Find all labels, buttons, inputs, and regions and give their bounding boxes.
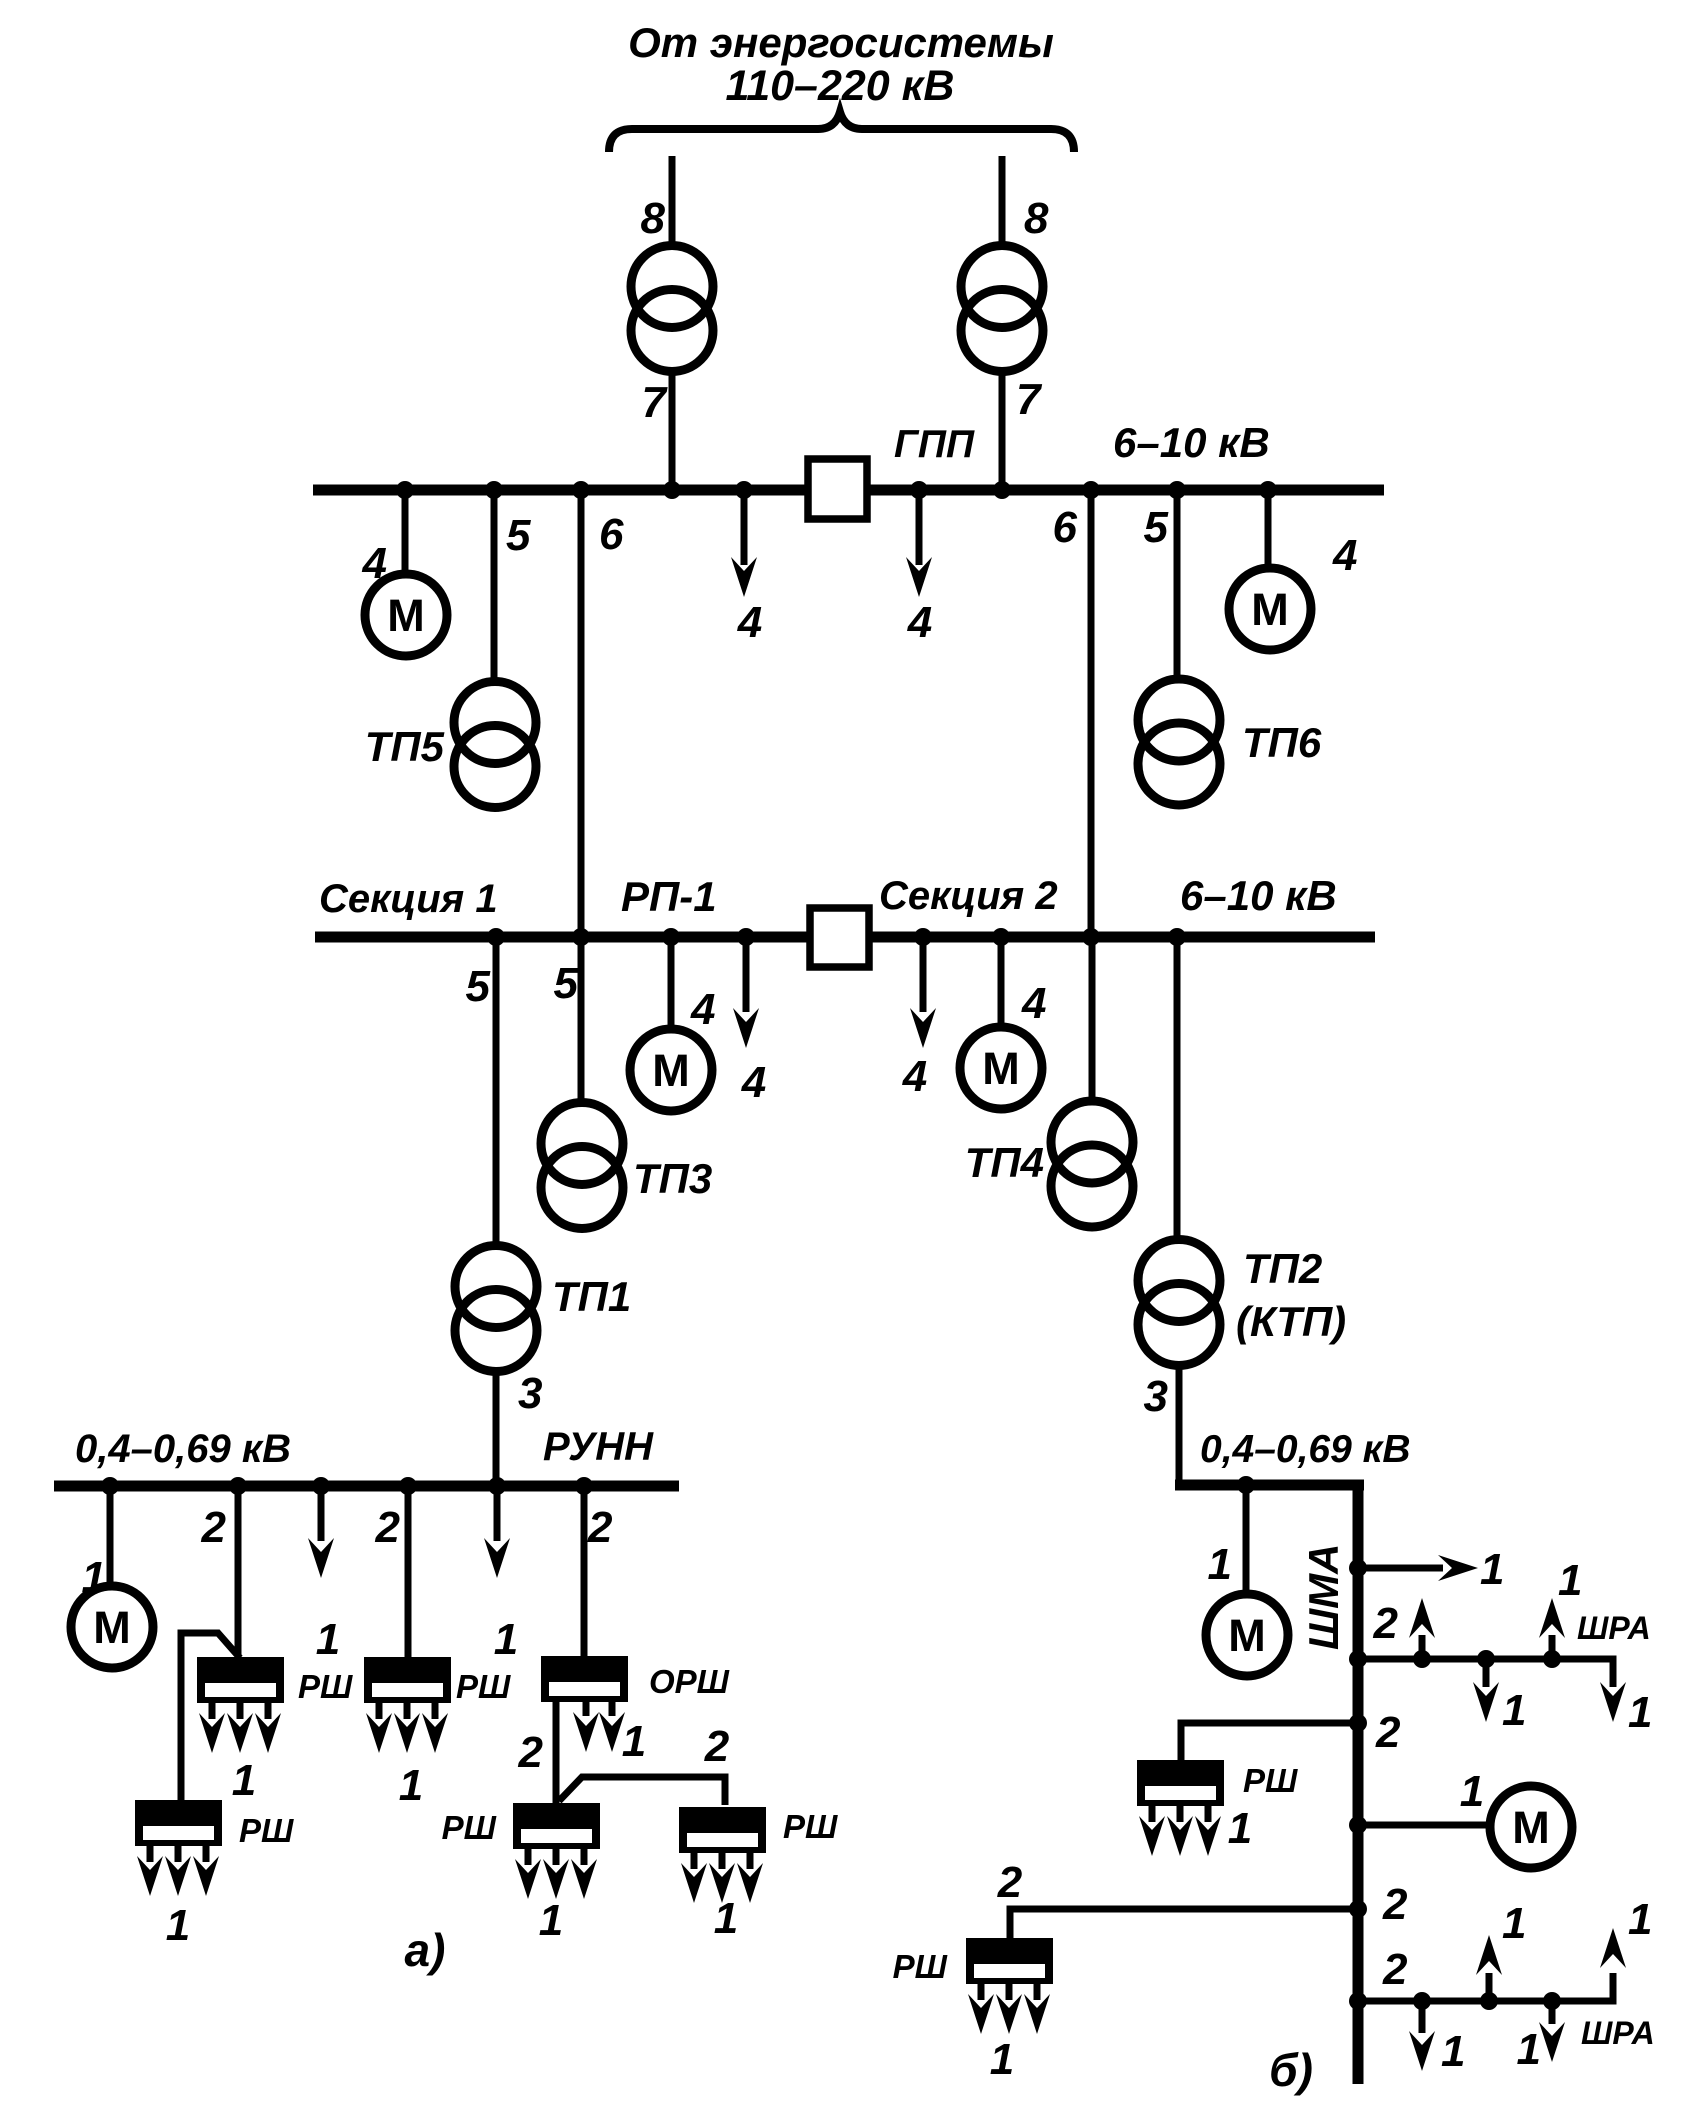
svg-text:РШ: РШ — [442, 1809, 497, 1846]
svg-text:1: 1 — [1628, 1688, 1652, 1737]
wire: down spur — [1483, 1663, 1490, 1687]
wire: reserve feeder arrow (right of tie) — [916, 494, 923, 565]
wire: bus1 to ТП5 — [491, 494, 498, 683]
junction: ШРА-1 drop 1 — [1413, 1650, 1431, 1668]
arrowhead down — [1539, 2022, 1565, 2062]
wire: bent link РШ A1 to РШ A2 — [181, 1633, 240, 1803]
wire: up spur — [1486, 1973, 1493, 1997]
junction: РШ tap — [399, 1477, 417, 1495]
junction: trunk/ТП4 — [1082, 928, 1100, 946]
svg-text:Секция 2: Секция 2 — [879, 874, 1058, 918]
junction: arrow tap — [312, 1477, 330, 1495]
svg-text:ТП5: ТП5 — [365, 723, 445, 770]
svg-text:ШРА: ШРА — [1577, 1610, 1651, 1646]
svg-text:ШРА: ШРА — [1581, 2015, 1655, 2051]
svg-text:1: 1 — [622, 1717, 646, 1766]
svg-text:4: 4 — [1021, 979, 1046, 1028]
svg-text:0,4–0,69 кВ: 0,4–0,69 кВ — [75, 1427, 291, 1471]
wire: down spur — [1419, 2005, 1426, 2033]
wire: ОРШ to РШ C1 — [553, 1702, 560, 1803]
junction: ШРА-1 tap — [1349, 1650, 1367, 1668]
svg-text:РШ: РШ — [893, 1948, 948, 1985]
wire: ШМА spur arrow right — [1362, 1565, 1443, 1572]
svg-text:ГПП: ГПП — [894, 423, 975, 466]
distribution box РШ A1 — [197, 1657, 284, 1753]
svg-text:7: 7 — [1016, 375, 1043, 424]
bus: РП-1 Секция 2 — [869, 932, 1375, 943]
motor M (б upper) — [1206, 1594, 1288, 1676]
wire: ШМА to РШ D1 — [1181, 1723, 1358, 1760]
svg-text:3: 3 — [518, 1369, 542, 1418]
svg-text:ТП4: ТП4 — [965, 1139, 1044, 1186]
wire: bus2 to ТП3 — [578, 941, 585, 1104]
wire: bus to РШ A1 — [235, 1490, 242, 1657]
svg-text:1: 1 — [1628, 1895, 1652, 1944]
motor M (РУНН) — [71, 1586, 153, 1668]
svg-text:1: 1 — [539, 1896, 563, 1945]
svg-text:4: 4 — [737, 598, 762, 647]
wire: bus2 to ТП1 — [493, 941, 500, 1246]
svg-text:б): б) — [1269, 2044, 1313, 2096]
wire: transformer right to GPP bus — [999, 370, 1006, 486]
junction: ШРА-1 drop 2 — [1477, 1650, 1495, 1668]
wire: feeder arrow (sect.1) — [743, 941, 750, 1012]
svg-text:1: 1 — [1480, 1545, 1504, 1594]
svg-text:5: 5 — [554, 959, 579, 1008]
svg-text:1: 1 — [1502, 1686, 1526, 1735]
distribution box РШ A2 (second row) — [135, 1800, 222, 1896]
junction: M tap (б) — [1237, 1476, 1255, 1494]
wire: transformer left to GPP bus — [669, 370, 676, 486]
arrowhead down — [1473, 1682, 1499, 1722]
distribution box РШ B1 — [364, 1657, 451, 1753]
distribution box РШ D1 — [1137, 1760, 1224, 1856]
wire: bus1 to ТП6 — [1174, 494, 1181, 680]
bus: ГПП 6-10 кВ section A — [313, 485, 808, 496]
distribution box РШ C1 — [513, 1803, 600, 1899]
arrowhead down — [910, 1008, 936, 1048]
junction: ТП5 tap — [485, 481, 503, 499]
wire: bus2 to ТП4 — [1089, 941, 1096, 1103]
bus: РУНН 0,4-0,69 кВ — [54, 1481, 679, 1492]
arrowhead down — [1409, 2031, 1435, 2071]
svg-text:7: 7 — [642, 378, 669, 427]
wire: ШРА-1 run — [1362, 1659, 1613, 1687]
arrowhead down (feeder 4) — [731, 557, 757, 597]
svg-text:2: 2 — [1382, 1880, 1408, 1929]
arrowhead down — [308, 1538, 334, 1578]
distribution box РШ D2 — [966, 1938, 1053, 2034]
svg-text:4: 4 — [1332, 531, 1357, 580]
svg-text:РШ: РШ — [1243, 1762, 1298, 1799]
svg-text:2: 2 — [1375, 1708, 1401, 1757]
junction: ТП1/arrow — [488, 1477, 506, 1495]
wire: supply feeder left (8) — [669, 156, 676, 250]
svg-text:5: 5 — [466, 962, 491, 1011]
transformer ТП3 — [541, 1103, 623, 1229]
bus: ШМА riser — [1353, 1480, 1364, 2084]
junction: РШ D2 tap — [1349, 1900, 1367, 1918]
junction: ОРШ tap — [575, 1477, 593, 1495]
junction: trunk/ТП3 — [572, 928, 590, 946]
wire: up spur — [1419, 1635, 1426, 1655]
svg-text:2: 2 — [1373, 1599, 1399, 1648]
arrowhead up — [1539, 1598, 1565, 1638]
bus: РП-1 Секция 1 — [315, 932, 810, 943]
bus: ГПП 6-10 кВ section B — [867, 485, 1384, 496]
svg-text:1: 1 — [232, 1756, 256, 1805]
motor M (upper right) — [1229, 568, 1311, 650]
svg-text:1: 1 — [1460, 1767, 1484, 1816]
junction: M tap (б lower) — [1349, 1816, 1367, 1834]
junction: РШ D1 tap — [1349, 1714, 1367, 1732]
svg-text:Секция 1: Секция 1 — [319, 877, 498, 921]
svg-text:6–10 кВ: 6–10 кВ — [1113, 419, 1270, 466]
junction: transformer left — [663, 481, 681, 499]
wire: trunk line 6 (right, bus1 to bus2) — [1088, 494, 1095, 938]
svg-text:2: 2 — [518, 1728, 544, 1777]
wire: ШМА to РШ D2 — [1010, 1909, 1358, 1938]
svg-text:1: 1 — [494, 1615, 518, 1664]
transformer ТП2 (КТП) — [1138, 1240, 1220, 1366]
svg-text:ТП1: ТП1 — [552, 1273, 631, 1320]
svg-text:0,4–0,69 кВ: 0,4–0,69 кВ — [1200, 1428, 1411, 1471]
svg-text:РШ: РШ — [456, 1668, 511, 1705]
svg-text:2: 2 — [997, 1858, 1023, 1907]
svg-text:ШМА: ШМА — [1300, 1544, 1347, 1650]
wire: ШМА to motor M — [1362, 1822, 1490, 1829]
svg-text:5: 5 — [506, 511, 531, 560]
svg-text:1: 1 — [316, 1615, 340, 1664]
wire: bus to РШ B1 — [405, 1490, 412, 1657]
arrowhead down (ШРА-1 end) — [1600, 1682, 1626, 1722]
junction: РШ tap — [229, 1477, 247, 1495]
junction: M tap — [1259, 481, 1277, 499]
brace 110-220 kV — [609, 112, 1074, 152]
junction: M tap — [662, 928, 680, 946]
wire: bus2 to motor M (right) — [998, 941, 1005, 1028]
svg-text:2: 2 — [587, 1503, 613, 1552]
motor M (б lower) — [1490, 1786, 1572, 1868]
junction: trunk 6 left — [572, 481, 590, 499]
motor M (upper left) — [365, 574, 447, 656]
junction: arrow tap — [914, 928, 932, 946]
junction: ШРА-2 tap — [1349, 1992, 1367, 2010]
junction: M tap — [101, 1477, 119, 1495]
svg-text:4: 4 — [902, 1052, 927, 1101]
svg-text:ТП2: ТП2 — [1243, 1245, 1322, 1292]
svg-text:ТП3: ТП3 — [633, 1155, 712, 1202]
svg-text:2: 2 — [1382, 1945, 1408, 1994]
wire: down spur — [1549, 2005, 1556, 2024]
svg-text:4: 4 — [907, 598, 932, 647]
svg-text:а): а) — [405, 1924, 446, 1976]
svg-text:1: 1 — [1517, 2025, 1541, 2074]
junction: trunk 6 right — [1082, 481, 1100, 499]
junction: ТП2 tap — [1168, 928, 1186, 946]
wire: feeder arrow — [318, 1490, 325, 1541]
motor M (mid right) — [960, 1027, 1042, 1109]
arrowhead down (feeder 4) — [906, 557, 932, 597]
distribution box РШ C2 — [679, 1807, 766, 1903]
wire: bus1 to motor M (left) — [402, 494, 409, 575]
svg-text:ТП6: ТП6 — [1242, 719, 1322, 766]
svg-text:(КТП): (КТП) — [1236, 1298, 1346, 1345]
wire: feeder arrow — [494, 1490, 501, 1541]
arrowhead up — [1409, 1598, 1435, 1638]
svg-text:2: 2 — [704, 1722, 730, 1771]
arrowhead down — [484, 1538, 510, 1578]
arrowhead right — [1438, 1555, 1478, 1581]
wire: up spur — [1549, 1635, 1556, 1655]
junction: arrow tap — [735, 481, 753, 499]
distribution box ОРШ — [541, 1656, 628, 1752]
junction: transformer right — [993, 481, 1011, 499]
junction: ШМА spur 1 — [1349, 1559, 1367, 1577]
transformer GPP left (two-winding) — [631, 246, 713, 372]
junction: ТП1 tap — [487, 928, 505, 946]
arrowhead up — [1476, 1935, 1502, 1975]
arrowhead up (ШРА-2 end) — [1600, 1928, 1626, 1968]
wire: bus2 to ТП2 — [1174, 941, 1181, 1240]
junction: M tap — [992, 928, 1010, 946]
bus: 0,4-0,69 кВ (б) — [1175, 1480, 1364, 1491]
svg-text:От энергосистемы: От энергосистемы — [628, 19, 1054, 66]
junction: ШРА-2 drop 2 — [1480, 1992, 1498, 2010]
wire: ТП2 to 0.4 kV bus — [1176, 1365, 1183, 1485]
svg-text:1: 1 — [990, 2035, 1014, 2084]
junction: arrow tap — [910, 481, 928, 499]
svg-text:6–10 кВ: 6–10 кВ — [1180, 872, 1337, 919]
svg-text:4: 4 — [690, 985, 715, 1034]
svg-text:1: 1 — [1502, 1899, 1526, 1948]
svg-text:РШ: РШ — [783, 1808, 838, 1845]
svg-text:1: 1 — [399, 1761, 423, 1810]
svg-text:РУНН: РУНН — [543, 1425, 654, 1469]
junction: ШРА-2 drop 1 — [1413, 1992, 1431, 2010]
transformer GPP right (two-winding) — [961, 246, 1043, 372]
svg-text:6: 6 — [1053, 503, 1078, 552]
wire: bus to motor M — [107, 1490, 114, 1587]
svg-text:1: 1 — [714, 1894, 738, 1943]
transformer ТП6 — [1138, 679, 1220, 805]
junction: ТП6 tap — [1168, 481, 1186, 499]
svg-text:РШ: РШ — [298, 1668, 353, 1705]
svg-text:РП-1: РП-1 — [621, 873, 717, 920]
svg-text:8: 8 — [1024, 194, 1049, 243]
transformer ТП4 — [1051, 1101, 1133, 1227]
svg-text:ОРШ: ОРШ — [649, 1663, 730, 1700]
svg-text:5: 5 — [1144, 503, 1169, 552]
motor M (mid left) — [630, 1029, 712, 1111]
svg-text:6: 6 — [599, 510, 624, 559]
svg-text:1: 1 — [1441, 2027, 1465, 2076]
svg-text:4: 4 — [741, 1058, 766, 1107]
svg-text:1: 1 — [1228, 1804, 1252, 1853]
switch: РП-1 bus-tie square — [810, 908, 869, 967]
wire: reserve feeder arrow (left of tie) — [741, 494, 748, 565]
wire: ШРА-2 run — [1362, 1973, 1613, 2001]
wire: bus to ОРШ — [581, 1490, 588, 1656]
wire: trunk line 6 (left, bus1 to bus2) — [578, 494, 585, 938]
transformer ТП1 — [455, 1246, 537, 1372]
svg-text:РШ: РШ — [239, 1812, 294, 1849]
arrowhead down — [733, 1008, 759, 1048]
junction: ШРА-2 drop 3 — [1543, 1992, 1561, 2010]
transformer ТП5 — [454, 682, 536, 808]
wire: link РШ C1 to РШ C2 — [559, 1777, 725, 1805]
svg-text:2: 2 — [201, 1503, 227, 1552]
svg-text:8: 8 — [641, 194, 666, 243]
svg-text:2: 2 — [375, 1503, 401, 1552]
junction: M tap — [396, 481, 414, 499]
wire: supply feeder right (8) — [999, 156, 1006, 250]
wire: ТП1 to РУНН bus — [493, 1371, 500, 1487]
switch: GPP bus-tie square — [808, 459, 867, 519]
wire: bus2 to motor M (left) — [668, 941, 675, 1030]
svg-text:1: 1 — [1558, 1556, 1582, 1605]
wire: bus1 to motor M (right) — [1265, 494, 1272, 569]
wire: bus to motor M (б) — [1243, 1490, 1250, 1594]
junction: arrow tap — [737, 928, 755, 946]
svg-text:1: 1 — [1208, 1540, 1232, 1589]
wire: feeder arrow (sect.2) — [920, 941, 927, 1012]
junction: ШРА-1 drop 3 — [1543, 1650, 1561, 1668]
svg-text:3: 3 — [1144, 1372, 1168, 1421]
svg-text:1: 1 — [166, 1901, 190, 1950]
